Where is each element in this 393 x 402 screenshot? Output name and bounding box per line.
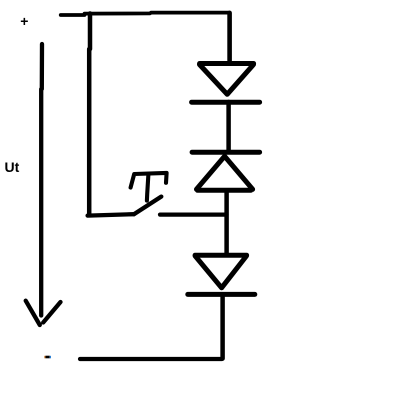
diode D2 (reversed, pointing up): [192, 152, 260, 190]
wire switch contact to diode node: [160, 213, 227, 217]
arrow Ut head: [26, 301, 61, 325]
svg-text:Ut: Ut: [5, 159, 20, 175]
diode D1 (pointing down): [192, 64, 260, 103]
wire D3 to bottom: [220, 295, 225, 359]
wire D1 to D2: [226, 102, 231, 152]
diode D3 (pointing down): [188, 255, 255, 294]
wire right vertical (top feed): [227, 13, 232, 61]
switch blade (open): [134, 197, 161, 215]
arrow Ut direction (shaft): [39, 44, 44, 316]
label - (negative terminal): [44, 356, 51, 359]
wire top: [61, 13, 230, 15]
wire inner bottom (switch pole): [88, 214, 134, 215]
svg-text:+: +: [20, 13, 28, 29]
wire bottom: [80, 357, 222, 361]
switch label T (hand-drawn): [131, 173, 167, 201]
wire D2 to D3 (through switch node): [224, 192, 229, 254]
wire inner vertical (from top wire down to switch): [87, 14, 92, 214]
